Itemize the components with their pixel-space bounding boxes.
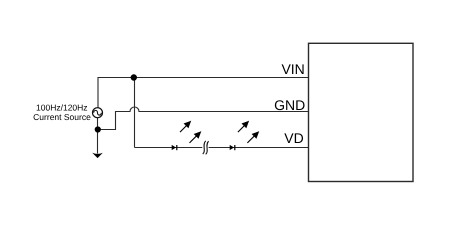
svg-text:VIN: VIN: [281, 61, 304, 77]
svg-text:GND: GND: [274, 97, 305, 113]
svg-text:VD: VD: [284, 130, 303, 146]
svg-text:Current Source: Current Source: [33, 112, 91, 122]
